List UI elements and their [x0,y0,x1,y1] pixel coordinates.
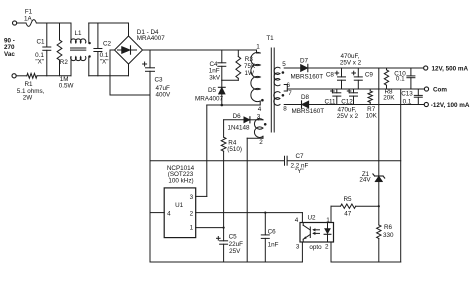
C11 plus sign [331,90,335,92]
svg-text:R1: R1 [24,81,33,88]
svg-text:MRA4007: MRA4007 [137,35,165,42]
resistor R7 [369,89,371,91]
svg-text:C1: C1 [36,38,45,45]
wire [37,75,71,77]
diode D7 [301,64,308,71]
svg-text:Com: Com [433,87,447,94]
svg-text:"X": "X" [35,58,44,65]
svg-text:8: 8 [283,105,287,112]
svg-text:25V x 2: 25V x 2 [337,113,359,120]
resistor R3 [237,50,239,57]
svg-text:47: 47 [344,210,352,217]
svg-text:U2: U2 [307,215,316,222]
bridge rectifier D1-D4 [115,36,143,64]
C5 plus sign [217,237,221,239]
wire +12V rail [308,67,424,69]
C8 plus sign [335,72,339,74]
wire to U1 pin 3 [206,105,208,196]
inductor L1 lower winding [70,57,72,76]
svg-text:C3: C3 [155,76,164,83]
svg-text:0.5W: 0.5W [59,83,74,90]
svg-text:4: 4 [167,210,171,217]
T1 primary phase dot [261,99,264,102]
T1 aux phase dot [264,123,267,126]
wire drain line [207,104,260,106]
node feedback junction [264,212,266,214]
svg-text:(510): (510) [227,146,242,153]
wire secondary bottom rail [331,261,401,263]
node -12V output terminal [424,102,428,106]
svg-text:0.1: 0.1 [403,98,412,105]
L1 phase dot upper [88,42,90,44]
node drain junction [221,104,224,107]
U1 pin 3 stub [196,195,207,197]
wire HV positive rail [143,49,257,51]
svg-text:C5: C5 [229,234,238,241]
svg-text:MBRS160T: MBRS160T [291,73,324,80]
U2 light arrows [314,229,320,231]
svg-text:1nF: 1nF [268,241,279,248]
svg-text:"Y": "Y" [295,168,304,175]
wire -12V rail [308,104,424,106]
svg-text:4: 4 [295,217,299,224]
wire primary bottom rail [150,261,302,263]
resistor R8 [386,68,388,70]
svg-text:400V: 400V [156,92,172,99]
svg-text:opto: opto [309,244,322,251]
wire bridge negative output [110,50,150,95]
capacitor C9 [357,68,359,77]
svg-text:25V: 25V [229,248,241,255]
L1 phase dot lower [88,55,90,57]
resistor R1 [27,73,37,78]
svg-text:20K: 20K [383,95,395,102]
transformer T1 lower secondary winding [274,92,280,106]
fuse F1 [26,20,36,27]
capacitor C3 [149,50,151,68]
svg-text:U1: U1 [175,202,184,209]
wire [36,22,71,24]
svg-text:1: 1 [326,217,330,224]
svg-text:T1: T1 [266,35,274,42]
wire [256,50,258,53]
wire aux return [247,137,263,139]
capacitor C2 [97,23,99,49]
wire [284,67,300,69]
wire Com drop [400,89,402,262]
wire center tap [284,84,287,86]
svg-text:C2: C2 [103,41,112,48]
svg-text:2W: 2W [23,95,33,102]
svg-text:1A: 1A [24,15,33,22]
svg-text:MBRS160T: MBRS160T [292,108,325,115]
svg-text:Vac: Vac [4,51,15,58]
transformer T1 auxiliary winding [259,119,264,121]
wire [284,104,301,106]
node Vcc junction [223,227,225,229]
capacitor C6 [264,213,266,235]
capacitor C10 [410,68,412,76]
svg-text:3: 3 [296,244,300,251]
capacitor C5 [223,228,225,241]
node AC neutral input terminal [12,74,16,78]
capacitor C4 [221,50,223,63]
svg-text:D8: D8 [301,94,310,101]
svg-text:0.1: 0.1 [396,75,405,82]
svg-text:C6: C6 [268,229,277,236]
svg-text:100 kHz): 100 kHz) [168,177,193,184]
svg-text:"X": "X" [100,58,109,65]
op-amp U1 NCP1014 body [164,188,196,238]
diode D6 [224,119,244,121]
svg-text:-12V, 100 mA: -12V, 100 mA [431,102,470,109]
svg-text:12V, 500 mA: 12V, 500 mA [432,66,469,73]
wire [128,23,130,36]
U2 phototransistor [309,227,311,238]
capacitor C11 [336,89,338,93]
svg-text:R6: R6 [384,224,393,231]
svg-text:C13: C13 [401,90,413,97]
node Com output terminal [424,87,428,91]
inductor L1 upper winding [70,23,72,43]
U2 pin 2 wire [330,242,332,262]
transformer T1 core [270,48,272,132]
wire [17,22,26,24]
svg-text:3: 3 [190,194,194,201]
svg-text:1: 1 [190,225,194,232]
U1 pin 1 stub [196,227,224,229]
svg-text:10K: 10K [366,112,378,119]
resistor R4 [223,120,225,137]
T1 upper secondary phase dot [282,71,285,74]
svg-text:D6: D6 [233,113,242,120]
capacitor C1 [46,23,48,47]
svg-text:2: 2 [190,210,194,217]
zener diode Z1 [375,175,383,177]
svg-text:C12: C12 [341,99,353,106]
diode D5 [221,80,223,87]
C12 plus sign [347,90,351,92]
U2 LED [327,223,329,229]
svg-text:MRA4007: MRA4007 [195,95,223,102]
capacitor C8 [341,68,343,77]
capacitor C7 [284,156,286,165]
transformer T1 primary winding [251,52,260,101]
svg-text:2: 2 [325,244,329,251]
svg-text:7: 7 [288,90,292,97]
wire [128,64,130,76]
svg-text:R5: R5 [343,196,352,203]
wire Com rail [287,88,424,90]
capacitor C13 [417,89,419,95]
svg-text:R2: R2 [60,59,69,66]
wire [89,22,129,24]
inductor L1 core [71,47,86,49]
svg-text:C11: C11 [324,99,336,106]
wire ground branch [150,160,285,162]
wire sense from +12V [378,68,380,176]
svg-text:C7: C7 [296,153,305,160]
svg-text:C9: C9 [365,72,374,79]
transformer T1 upper secondary winding [274,67,280,86]
node +12V output terminal [424,66,428,70]
wire primary ground bus [149,95,151,262]
svg-text:5: 5 [282,61,286,68]
svg-text:D7: D7 [300,58,309,65]
svg-text:330: 330 [383,232,394,239]
U1 pin 4 stub [150,212,164,214]
resistor R2 [59,23,61,40]
svg-text:4: 4 [258,106,262,113]
wire [222,79,239,81]
svg-text:1N4148: 1N4148 [227,124,250,131]
C9 plus sign [352,72,356,74]
resistor R6 [378,206,380,225]
svg-text:24V: 24V [359,177,371,184]
wire [89,75,129,77]
node AC line input terminal [13,21,17,25]
optocoupler U2 body [300,223,334,243]
U1 pin 2 feedback wire [196,212,303,214]
svg-text:1: 1 [256,44,260,51]
svg-text:3kV: 3kV [209,74,221,81]
svg-text:L1: L1 [74,30,82,37]
svg-text:25V x 2: 25V x 2 [340,60,362,67]
U2 pin 1 wire [330,206,332,222]
T1 lower secondary phase dot [282,94,285,97]
U2 pin 3 wire [301,242,303,262]
diode D8 [302,101,309,108]
wire [16,75,27,77]
C3 plus sign [143,63,147,65]
svg-text:2: 2 [259,139,263,146]
resistor R5 [356,205,379,207]
svg-text:C8: C8 [326,72,335,79]
node zener junction [378,205,380,207]
capacitor C12 [353,89,355,93]
svg-text:D5: D5 [208,87,217,94]
